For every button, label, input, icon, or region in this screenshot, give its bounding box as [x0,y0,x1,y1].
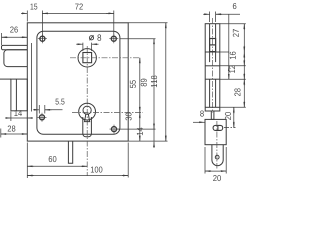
dim text 89 [141,79,147,87]
side slot pill [213,125,223,130]
dead bolt bevel line [15,79,17,111]
centerline vertical through follower and keyhole [86,46,88,176]
dim text 20 middle [225,112,231,120]
dim 27 line [243,24,245,108]
screw hole bottom-right [110,125,119,134]
dim 5.5 [33,105,63,114]
dim text 118 [151,76,157,88]
latch bolt strip [2,45,28,49]
dim 28 [1,129,28,138]
side follower nut [210,39,216,52]
cover plate (rounded) [37,31,120,134]
dim text dia 8 [97,34,101,41]
dim text 12 [229,65,235,72]
keyhole centerline horizontal [72,111,143,113]
dim 30 vertical [128,112,167,141]
dim 8 leader [193,121,205,123]
side view plate [205,24,220,111]
dead bolt [11,79,27,111]
dim text 30 [126,113,132,121]
dim text 72 [75,4,83,10]
side tombstone [212,145,223,166]
dim text 55 [130,80,136,88]
dim text 60 [49,156,57,162]
dim 100 [27,143,128,178]
bottom tab [68,141,72,163]
dim 20 middle [233,107,235,127]
dim 14 left [6,112,33,122]
side horizontal lines [205,51,220,53]
dim 118 vertical [128,23,167,141]
follower square hole [83,53,92,63]
dim 55 vertical [139,58,141,113]
dim 89 vertical [117,39,156,129]
dim 26 [2,33,28,45]
dim text 27 [233,29,239,37]
dim text 5.5 [55,99,64,105]
dim text 100 [91,167,103,173]
dim text 14 left [14,110,22,116]
screw hole bottom-left [38,113,47,122]
dim text 28 [234,88,240,96]
dim text 28 [8,126,16,132]
keyhole neck [83,117,92,137]
dim text 6 [233,3,237,9]
screw hole top-right [109,34,118,43]
follower circle [78,49,96,67]
side connector [211,111,214,119]
dim 20 bottom [205,147,226,174]
dim text 20 bottom [213,175,221,181]
dim 12 line [228,15,230,80]
dim o8 [76,43,98,51]
side view inner lines [209,24,211,62]
keyhole cutout [83,106,91,114]
dim 60 [27,143,87,179]
faceplate inner edge line [31,43,33,112]
dim 8 label [200,111,204,117]
right chain extension lines [220,24,246,128]
side vertical centerline lower [216,121,218,169]
side view centerline [212,18,214,113]
dim text 14 right [137,128,143,136]
side small circle [215,155,219,159]
side lower box [205,119,226,144]
follower centerline horizontal [70,57,140,59]
dim text 26 [10,27,18,33]
dim 15/72 top line [21,11,114,43]
dim text 15 [31,4,38,10]
lock case outline [27,23,128,141]
dim 6 top [203,12,240,23]
screw hole top-left [38,34,47,43]
dim text 16 [230,52,236,59]
latch bolt body [4,50,27,67]
keyhole boss circle [79,103,96,120]
dim 14 right vertical [153,129,155,148]
